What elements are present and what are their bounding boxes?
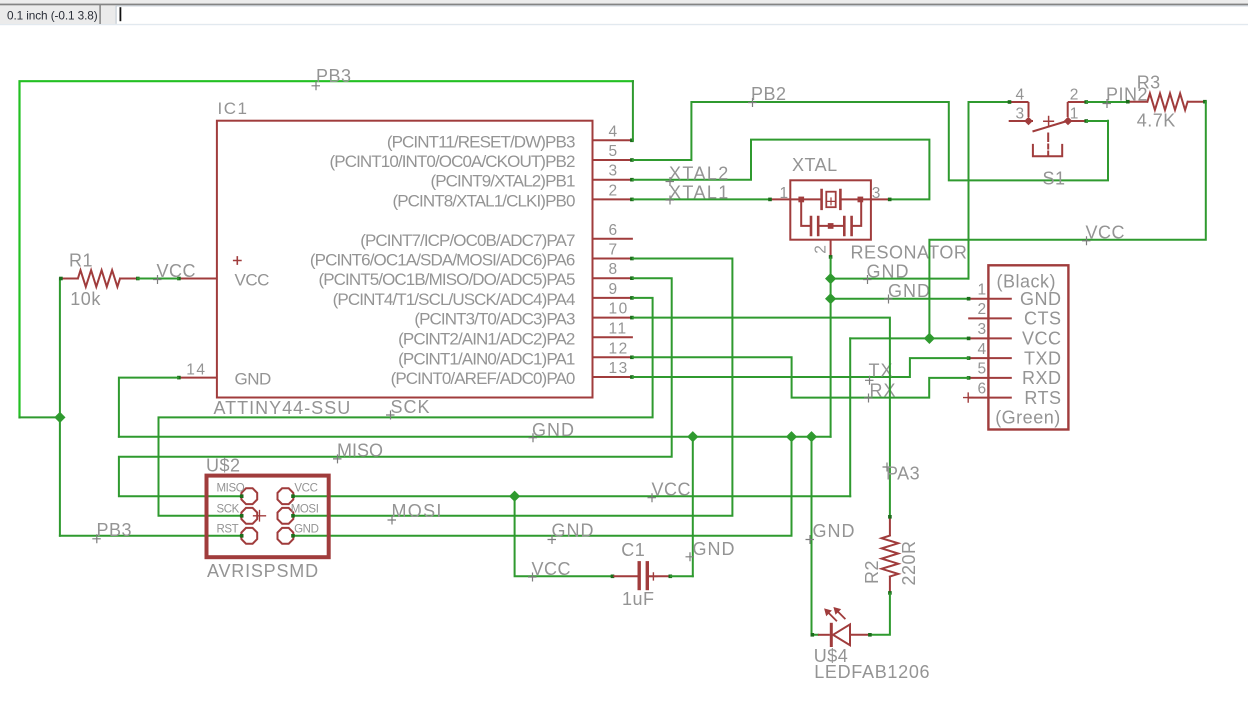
connector pin 5 stub [967,376,1012,380]
IC1 pin 3 stub [593,178,634,182]
wire GND from S1 pin 4 down [969,102,1009,279]
IC IC1 outline [217,121,593,398]
wire VCC run from ISP VCC pad [294,495,850,497]
net label SCK [386,397,431,420]
svg-text:11: 11 [609,320,628,337]
IC1 pin 11 number [609,320,628,337]
IC1 pin 12 number [609,340,629,357]
U$2 pad label MOSI [291,503,319,515]
svg-text:1uF: 1uF [622,589,655,609]
U$2 pad label RST [217,523,239,535]
net label VCC (ISP run) [648,480,692,503]
svg-text:12: 12 [609,340,629,357]
toolbar coordinate display 0.1 inch (-0.1 3.8) [7,9,98,23]
svg-text:GND: GND [813,521,856,541]
U$2 pad label SCK [217,503,240,515]
R3 name label [1137,73,1161,93]
svg-text:XTAL: XTAL [792,155,838,175]
S1 fixed contact arrow left [1024,117,1033,126]
IC1 VCC plus mark [234,257,241,264]
IC1 pin 5 number [609,143,619,160]
svg-text:(PCINT9/XTAL2)PB1: (PCINT9/XTAL2)PB1 [430,172,574,191]
connector pin 4 name TXD [1024,348,1062,368]
U$2 pad GND [278,528,294,544]
U$2 name label [206,455,241,475]
XTAL crystal element [790,190,871,209]
S1 actuator dashed link [1047,134,1049,155]
wire GND branch to S1 column [831,278,969,280]
svg-text:1: 1 [780,185,789,202]
net label VCC (rail) [1082,223,1125,246]
IC1 pin 8 number [609,261,619,278]
svg-text:2: 2 [813,245,830,254]
net label RX [864,381,897,403]
wire GND from IC1 pin 14 [119,378,178,437]
S1 pin 4 number [1016,87,1025,104]
wire RX from IC1 pin 12 to RXD [633,357,968,397]
connector pin 4 number [977,341,987,358]
net label GND (main run) [529,420,576,442]
wire GND down to ISP GND pad [294,437,792,536]
XTAL pin 2 number (rotated) [813,245,830,254]
ISP header U$2 outline [207,476,329,558]
IC1 pin 7 stub [593,257,634,261]
wire VCC from R1 to IC1 [138,278,178,280]
svg-text:(PCINT4/T1/SCL/USCK/ADC4)PA4: (PCINT4/T1/SCL/USCK/ADC4)PA4 [333,290,575,309]
net label PB3 (bottom) [92,520,132,543]
svg-text:GND: GND [235,370,272,389]
svg-text:VCC: VCC [532,559,572,579]
connector pin 3 name VCC [1022,329,1062,349]
S1 name label [1043,169,1066,189]
svg-text:220R: 220R [899,540,919,585]
net label GND (at LED) [806,521,856,544]
XTAL pin 3 stub [871,198,892,202]
svg-text:(PCINT6/OC1A/SDA/MOSI/ADC6)PA6: (PCINT6/OC1A/SDA/MOSI/ADC6)PA6 [310,251,575,270]
command input field [116,5,1248,23]
IC1 pin 2 name PB0 [392,191,575,210]
net label PB2 [748,84,787,107]
wire GND branch to FTDI pin 1 [831,298,969,300]
svg-text:10k: 10k [70,289,101,309]
svg-text:U$2: U$2 [206,455,241,475]
wire PB3 net top run (highlighted) [20,81,633,417]
svg-text:R1: R1 [69,251,93,271]
net label XTAL1 [666,182,730,204]
S1 actuator bracket [1033,145,1062,156]
svg-text:3: 3 [872,185,881,202]
connector pin 2 name CTS [1024,309,1062,329]
IC1 pin 2 stub [593,198,634,202]
net label GND (to connector) [884,281,931,303]
svg-text:IC1: IC1 [218,99,249,118]
connector pin 1 number [977,282,987,299]
IC1 pin 13 number [609,360,629,377]
IC1 pin 6 stub [593,238,633,240]
connector pin 2 stub [968,317,1012,319]
wire GND down to LED cathode [811,437,818,637]
svg-text:(PCINT7/ICP/OC0B/ADC7)PA7: (PCINT7/ICP/OC0B/ADC7)PA7 [360,231,575,250]
net label TX [865,360,894,385]
svg-text:MOSI: MOSI [392,501,443,521]
S1 origin cross [1044,117,1054,127]
svg-text:R3: R3 [1137,73,1161,93]
XTAL pin 2 stub [829,240,833,259]
U$2 pad label MISO [217,483,245,495]
svg-text:VCC: VCC [1022,329,1062,349]
junction GND at LED branch [806,431,817,442]
resonator XTAL outline [790,180,871,239]
svg-text:(PCINT1/AIN0/ADC1)PA1: (PCINT1/AIN0/ADC1)PA1 [398,349,575,368]
connector outline [988,265,1068,429]
wire PB2 from IC1 pin 5 [633,102,1108,180]
svg-text:MISO: MISO [337,440,383,460]
IC1 pin 5 name PB2 [330,152,575,171]
IC1 pin 3 name PB1 [430,172,574,191]
wire MISO from IC1 pin 8 [119,278,672,496]
junction GND at XTAL column lower [825,293,836,304]
svg-text:3: 3 [609,163,619,180]
LED U$4 [818,624,872,645]
IC1 pin 6 number [609,222,619,239]
svg-text:RTS: RTS [1024,388,1061,408]
wire PB3 vertical R1 to RST [59,279,61,536]
IC1 pin 13 stub [593,375,634,379]
svg-text:VCC: VCC [235,271,270,290]
wire PB2 link at S1 pin 1 [1087,120,1108,122]
svg-text:(Green): (Green) [995,408,1061,428]
svg-text:GND: GND [552,521,595,541]
IC1 pin 13 name PA0 [391,369,575,388]
IC1 pin 8 name PA5 [318,270,574,289]
net label PIN2 [1103,85,1149,109]
svg-text:VCC: VCC [294,483,317,495]
svg-text:GND: GND [888,281,931,301]
IC1 pin 11 name PA2 [398,329,575,348]
svg-text:PB2: PB2 [751,84,787,104]
R1 name label [69,251,93,271]
net label MOSI [388,501,443,525]
wire XTAL1 from IC1 pin 2 [633,198,769,200]
svg-text:2: 2 [977,301,987,318]
svg-text:4: 4 [1016,87,1025,104]
svg-text:MOSI: MOSI [291,503,319,515]
svg-text:RX: RX [870,381,897,401]
svg-text:5: 5 [977,361,987,378]
svg-text:6: 6 [977,380,987,397]
svg-text:RESONATOR: RESONATOR [851,243,968,263]
wire PB3 bottom run to RST pad [60,535,241,537]
connector pin 6 name RTS [1024,388,1061,408]
net label XTAL2 [666,164,730,187]
svg-text:XTAL1: XTAL1 [669,182,730,202]
svg-text:1: 1 [977,282,987,299]
wire SCK from IC1 pin 9 [159,298,653,516]
IC1 GND pin name [235,370,272,389]
connector pin 5 name RXD [1022,368,1062,388]
junction GND at ISP branch [786,431,797,442]
S1 pin 1 number [1070,106,1079,123]
wire PA3 from IC1 pin 10 [633,318,890,516]
wire PB3 run to junction [20,416,60,418]
svg-text:LEDFAB1206: LEDFAB1206 [814,662,930,682]
text cursor [120,7,122,21]
C1 value 1uF [622,589,655,609]
IC1 value ATTINY44-SSU [214,398,352,418]
svg-text:9: 9 [609,281,619,298]
connector pin 2 number [977,301,987,318]
R2 name label (rotated) [862,560,882,584]
svg-text:TXD: TXD [1024,348,1062,368]
svg-text:(PCINT5/OC1B/MISO/DO/ADC5)PA5: (PCINT5/OC1B/MISO/DO/ADC5)PA5 [318,270,574,289]
IC1 pin 8 stub [593,276,634,280]
wire VCC down to C1 [515,496,612,576]
IC1 pin 14 number [186,361,206,378]
IC1 pin 3 number [609,163,619,180]
XTAL internal capacitors [801,199,861,235]
svg-text:C1: C1 [621,540,645,560]
resistor R3 [1126,93,1207,110]
svg-text:(PCINT2/AIN1/ADC2)PA2: (PCINT2/AIN1/ADC2)PA2 [398,329,575,348]
IC1 pin 5 stub [593,158,634,162]
IC1 pin 11 stub [593,336,633,338]
IC1 name label [218,99,249,118]
wire PIN2 from S1 pin 2 to R3 [1087,101,1127,103]
svg-text:PB3: PB3 [316,66,352,86]
XTAL internal junction left [798,197,804,203]
net label MISO [333,440,383,463]
wire VCC vertical to ISP row [849,338,851,496]
U$2 pad connection dots [240,494,295,537]
svg-text:4: 4 [609,123,619,140]
U$4 name label [814,646,849,666]
resistor R2 [882,515,899,595]
wire XTAL2 from IC1 pin 3 [633,140,930,200]
svg-text:GND: GND [294,523,318,535]
S1 pin 2 stub [1068,100,1088,117]
XTAL name label [792,155,838,175]
U$2 pad label GND [294,523,318,535]
svg-text:RXD: RXD [1022,368,1062,388]
U$4 value LEDFAB1206 [814,662,930,682]
svg-text:(PCINT8/XTAL1/CLKI)PB0: (PCINT8/XTAL1/CLKI)PB0 [392,191,575,210]
wire R2 to LED anode [870,594,890,635]
net label GND (ISP run) [548,521,595,545]
net label GND (resonator upper) [863,262,910,285]
C1 name label [621,540,645,560]
net label PA3 [883,463,921,484]
svg-text:ATTINY44-SSU: ATTINY44-SSU [214,398,352,418]
R2 value 220R (rotated) [899,540,919,585]
svg-text:RST: RST [217,523,239,535]
svg-text:3: 3 [977,321,987,338]
svg-text:CTS: CTS [1024,309,1062,329]
svg-text:PA3: PA3 [886,464,920,484]
svg-text:(PCINT0/AREF/ADC0)PA0: (PCINT0/AREF/ADC0)PA0 [391,369,575,388]
connector pin 6 number [977,380,987,397]
S1 moving contact arrow right [1064,117,1073,126]
U$2 pad label VCC [294,483,317,495]
U$2 pad MOSI [278,508,294,524]
svg-text:VCC: VCC [652,480,692,500]
svg-text:8: 8 [609,261,619,278]
wire PB3 vertical to IC1 pin 4 [632,81,634,140]
IC1 pin 6 name PA7 [360,231,575,250]
net label PB3 (top) [312,66,352,90]
connector pin 1 stub [967,297,1012,301]
junction VCC at FTDI column [924,333,935,344]
IC1 VCC pin stub (left) [177,277,217,281]
IC1 pin 10 stub [593,316,634,320]
S1 pin 1 stub [1068,119,1088,123]
XTAL pin 1 number [780,185,789,202]
IC1 pin 12 name PA1 [398,349,575,368]
IC1 pin 14 GND stub (left) [177,376,217,380]
U$2 pad RST [241,528,257,544]
svg-text:VCC: VCC [1086,223,1126,243]
svg-text:SCK: SCK [391,397,431,417]
XTAL internal junction bottom [828,223,834,229]
IC1 pin 9 stub [593,296,634,300]
S1 lever [1033,122,1066,132]
svg-text:7: 7 [609,242,619,259]
IC1 pin 4 number [609,123,619,140]
IC1 pin 4 name PB3 [387,132,575,151]
wire GND down to C1 [692,437,694,577]
S1 pin 3 number [1016,106,1025,123]
wire GND from XTAL pin 2 down [830,258,832,437]
resistor R1 [59,270,140,287]
XTAL pin 3 number [872,185,881,202]
connector pin 5 number [977,361,987,378]
svg-text:GND: GND [693,539,736,559]
svg-text:PB3: PB3 [97,520,133,540]
svg-text:GND: GND [867,262,910,282]
svg-text:5: 5 [609,143,619,160]
svg-text:GND: GND [532,420,575,440]
IC1 pin 4 stub [593,139,634,143]
svg-text:2: 2 [609,182,619,199]
wire GND horizontal run below IC [119,436,831,438]
wire VCC from R3 down and across [929,102,1205,339]
junction PB3 node [54,412,65,423]
connector pin 3 number [977,321,987,338]
connector pin 1 name GND [1020,289,1062,309]
connector label (Green) [995,408,1061,428]
XTAL value RESONATOR [851,243,968,263]
connector pin 3 stub [967,337,1012,341]
U$2 pad SCK [241,508,257,524]
wire MOSI from IC1 pin 7 [294,259,733,516]
junction GND at XTAL column upper [825,273,836,284]
svg-text:VCC: VCC [157,261,197,281]
svg-text:6: 6 [609,222,619,239]
net label VCC (at R1) [153,261,196,284]
wire C1 right to GND vertical [671,575,693,577]
svg-text:4: 4 [977,341,987,358]
IC1 pin 10 name PA3 [414,310,575,329]
toolbar separator [99,5,101,25]
IC1 pin 2 number [609,182,619,199]
svg-text:4.7K: 4.7K [1137,110,1176,130]
svg-text:GND: GND [1020,289,1062,309]
wire TX from IC1 pin 13 to TXD [633,358,968,377]
svg-text:R2: R2 [862,560,882,584]
junction GND at C1 branch [687,431,698,442]
U$2 origin cross [254,511,266,522]
IC1 VCC pin name [235,271,270,290]
svg-text:2: 2 [1070,87,1079,104]
svg-text:SCK: SCK [217,503,240,515]
R3 value 4.7K [1137,110,1176,130]
R1 value 10k [70,289,101,309]
wire VCC to FTDI pin 3 [850,337,968,339]
XTAL pin 1 stub [768,198,790,202]
svg-text:(PCINT10/INT0/OC0A/CKOUT)PB2: (PCINT10/INT0/OC0A/CKOUT)PB2 [330,152,575,171]
connector label (Black) [997,272,1057,292]
svg-text:AVRISPSMD: AVRISPSMD [207,561,319,581]
svg-text:14: 14 [186,361,206,378]
net label GND (at C1) [686,539,736,561]
svg-text:10: 10 [609,301,629,318]
connector pin 4 stub [967,356,1012,360]
LED emission arrows [824,607,845,621]
capacitor C1 [611,563,672,589]
IC1 pin 9 number [609,281,619,298]
svg-text:XTAL2: XTAL2 [669,164,730,184]
svg-text:(PCINT3/T0/ADC3)PA3: (PCINT3/T0/ADC3)PA3 [414,310,575,329]
U$2 pad VCC [278,488,294,504]
junction VCC at C1 branch [509,491,520,502]
S1 pin 2 number [1070,87,1079,104]
svg-text:S1: S1 [1043,169,1066,189]
svg-text:3: 3 [1016,106,1025,123]
connector pin 6 stub [964,393,1012,402]
svg-text:(PCINT11/RESET/DW)PB3: (PCINT11/RESET/DW)PB3 [387,132,575,151]
XTAL internal junction right [858,197,864,203]
IC1 pin 7 number [609,242,619,259]
svg-text:MISO: MISO [217,483,245,495]
svg-text:0.1 inch (-0.1 3.8): 0.1 inch (-0.1 3.8) [7,9,98,23]
switch S1 pin 4 stub [1008,100,1029,117]
S1 pin 3 stub [1009,120,1033,122]
IC1 pin 7 name PA6 [310,251,575,270]
IC1 pin 9 name PA4 [333,290,575,309]
IC1 pin 12 stub [593,356,634,360]
U$2 pad MISO [241,488,257,504]
U$2 value AVRISPSMD [207,561,319,581]
toolbar background [0,0,1248,25]
svg-text:13: 13 [609,360,629,377]
IC1 pin 10 number [609,301,629,318]
net label VCC (at C1) [528,559,571,582]
